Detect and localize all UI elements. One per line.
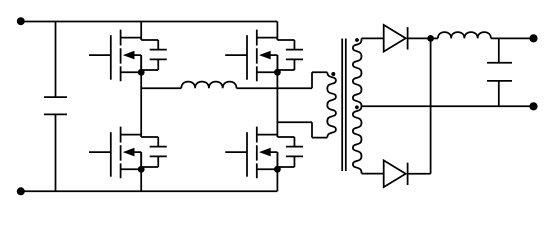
wire D2 cathode up to junction: [408, 38, 431, 173]
primary polarity dot: [331, 72, 335, 76]
wire bottom rail: [21, 190, 278, 192]
wire right leg midpoint to primary bottom: [277, 122, 327, 137]
diode D2: [384, 160, 408, 187]
wire inductor to primary top: [237, 72, 328, 88]
wire D1 cathode to junction: [408, 37, 431, 39]
wire secondary top to D1: [362, 37, 384, 39]
node Vin- terminal: [17, 187, 25, 195]
wire top rail: [21, 21, 277, 23]
inductor Lr (resonant): [181, 82, 236, 89]
wire center tap to Vout-: [362, 105, 534, 107]
secondary polarity dot (upper half): [355, 38, 359, 42]
transistor Q1 (top-left MOSFET with parallel capacitor): [89, 30, 167, 82]
inductor Lout: [438, 32, 491, 38]
secondary polarity dot (lower half): [355, 105, 359, 109]
node Vout+ terminal: [529, 34, 537, 42]
diode D1: [384, 25, 408, 52]
node Vout- terminal: [529, 102, 537, 110]
wire secondary bottom to D2: [362, 173, 384, 175]
transformer core: [342, 39, 346, 172]
transformer secondary winding (center tapped): [353, 38, 362, 173]
transistor Q2 (top-right MOSFET with parallel capacitor): [225, 30, 303, 82]
capacitor Cout: [487, 38, 512, 106]
transistor Q3 (bottom-left MOSFET with parallel capacitor): [89, 127, 167, 179]
transistor Q4 (bottom-right MOSFET with parallel capacitor): [225, 127, 303, 179]
wire inductor to Vout+: [491, 37, 534, 39]
node rectifier output junction: [427, 35, 434, 42]
wire junction to output inductor: [431, 37, 438, 39]
node Vin+ terminal: [17, 17, 25, 25]
capacitor Cin: [44, 22, 67, 192]
transformer T1 primary winding: [327, 72, 336, 137]
wire right bridge leg: [276, 22, 278, 192]
wire left bridge leg: [140, 22, 142, 192]
wire left leg midpoint to resonant inductor: [141, 87, 181, 89]
